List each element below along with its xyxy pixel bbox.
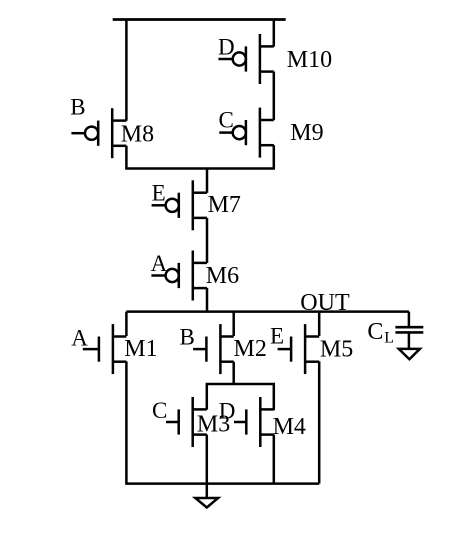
- transistor M6: [151, 251, 207, 301]
- svg-text:M2: M2: [234, 336, 267, 362]
- svg-text:B: B: [70, 95, 85, 120]
- wire M1 source down: [125, 361, 128, 483]
- svg-text:M4: M4: [273, 414, 306, 440]
- wire OUT to CL: [408, 312, 411, 328]
- wire pmos bottom node: [125, 167, 275, 170]
- transistor M4: [234, 397, 274, 447]
- ground: [195, 498, 218, 508]
- wire M2 to M3 M4 node: [206, 383, 275, 386]
- svg-text:M7: M7: [208, 192, 241, 218]
- transistor M2: [193, 324, 234, 374]
- svg-text:M10: M10: [287, 47, 332, 73]
- wire M5 source down: [318, 361, 321, 483]
- wire M6 to OUT: [206, 288, 209, 312]
- svg-text:B: B: [180, 324, 195, 349]
- svg-text:C: C: [152, 398, 167, 423]
- capacitor CL: [395, 327, 423, 349]
- wire OUT node rail: [126, 310, 409, 313]
- wire OUT to M1: [125, 312, 128, 336]
- wire M3 source to gnd: [206, 435, 209, 498]
- wire node to M7: [206, 169, 209, 193]
- svg-text:M8: M8: [121, 122, 154, 148]
- transistor M10: [218, 34, 273, 84]
- svg-text:M1: M1: [124, 336, 157, 362]
- svg-text:C: C: [367, 319, 383, 345]
- wire M7 to M6: [206, 218, 209, 263]
- ground (CL): [399, 349, 420, 359]
- svg-text:M6: M6: [206, 263, 239, 289]
- svg-text:C: C: [219, 107, 234, 132]
- svg-text:D: D: [218, 34, 235, 59]
- wire vdd to M8: [125, 20, 128, 121]
- transistor M8: [71, 108, 126, 158]
- wire M10 to M9: [273, 72, 276, 121]
- wire gnd rail: [125, 482, 319, 485]
- svg-text:OUT: OUT: [300, 290, 350, 316]
- wire node to M4: [273, 384, 276, 410]
- wire vdd to M10: [273, 20, 276, 47]
- transistor M3: [166, 397, 207, 447]
- wire M4 source down: [273, 435, 276, 484]
- wire M8 drain down: [125, 146, 128, 169]
- wire M9 drain down: [273, 145, 276, 168]
- wire node to M3: [206, 384, 209, 410]
- svg-text:D: D: [219, 399, 236, 424]
- svg-text:L: L: [384, 329, 394, 346]
- svg-text:M5: M5: [320, 337, 353, 363]
- wire M2 source down: [232, 362, 235, 384]
- transistor M9: [219, 108, 273, 158]
- svg-text:E: E: [270, 323, 284, 348]
- svg-text:E: E: [152, 181, 166, 206]
- wire OUT to M2: [232, 312, 235, 336]
- transistor M5: [278, 324, 320, 374]
- transistor M1: [83, 324, 127, 374]
- svg-text:M9: M9: [290, 120, 323, 146]
- vdd power rail: [113, 18, 286, 21]
- wire OUT to M5: [318, 312, 321, 336]
- svg-text:A: A: [71, 325, 88, 350]
- transistor M7: [152, 180, 207, 230]
- svg-text:A: A: [151, 251, 168, 276]
